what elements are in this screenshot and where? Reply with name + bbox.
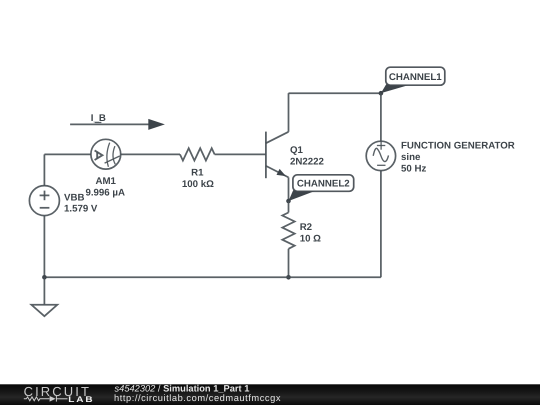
svg-text:LAB: LAB [68,395,94,404]
wire top rail [289,92,381,94]
node junction top right [379,91,384,96]
voltage source VBB [29,186,59,216]
R1 name and value label [182,168,214,191]
resistor R1 [180,148,215,160]
wire main rail left segment [44,153,91,155]
svg-text:50 Hz: 50 Hz [401,163,426,174]
current arrow I_B [70,113,165,130]
wire collector vertical [288,93,290,132]
function generator label [401,140,515,174]
svg-text:sine: sine [401,152,421,163]
svg-text:Q1: Q1 [290,145,304,156]
R2 name and value label [300,222,321,245]
svg-text:R2: R2 [300,222,312,233]
node junction bottom left [42,275,47,280]
resistor R2 [282,213,294,249]
svg-text:2N2222: 2N2222 [290,156,324,167]
Q1 name and value label [290,145,324,167]
wire ground stem [43,277,45,305]
wire bottom rail [44,276,381,278]
svg-text:http://circuitlab.com/cedmautf: http://circuitlab.com/cedmautfmccgx [114,393,281,403]
node junction emitter/CHANNEL2 [286,199,291,204]
AM1 name and value label [85,176,125,198]
CircuitLab logo [24,384,95,404]
wire R2 to bottom rail [288,249,290,277]
channel label CHANNEL2 [289,175,354,201]
wire ammeter to R1 [121,153,180,155]
wire right vertical upper [380,93,382,141]
svg-text:R1: R1 [191,168,204,179]
wire R1 to base [215,153,266,155]
svg-text:FUNCTION GENERATOR: FUNCTION GENERATOR [401,140,515,151]
ammeter AM1 [91,139,121,169]
footer caption text [114,384,281,403]
transistor Q1 [266,132,289,179]
wire right vertical lower [380,171,382,278]
svg-text:VBB: VBB [64,192,84,203]
svg-text:1.579 V: 1.579 V [64,203,98,214]
wire junction to R2 [288,201,290,213]
node junction bottom center [286,275,291,280]
svg-text:CHANNEL2: CHANNEL2 [297,179,350,190]
ground [31,305,57,316]
wire left vertical top (VBB to main rail) [43,154,45,186]
VBB name and value label [64,192,98,214]
wire left vertical bottom (VBB to ground rail) [43,216,45,278]
svg-text:AM1: AM1 [95,176,116,187]
wire emitter vertical [288,177,290,201]
footer bar [0,384,540,405]
channel label CHANNEL1 [381,67,445,93]
svg-text:10 Ω: 10 Ω [300,233,321,244]
svg-text:9.996 µA: 9.996 µA [85,187,125,198]
svg-text:CHANNEL1: CHANNEL1 [389,72,442,83]
function generator [366,141,395,170]
svg-text:100 kΩ: 100 kΩ [182,179,214,190]
